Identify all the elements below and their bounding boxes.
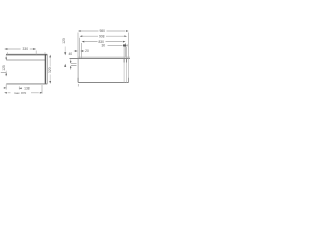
svg-text:max. 870: max. 870	[14, 91, 27, 95]
svg-text:40: 40	[68, 52, 72, 56]
svg-text:980: 980	[99, 29, 105, 33]
svg-text:30: 30	[101, 44, 105, 48]
svg-text:138: 138	[24, 87, 30, 91]
svg-text:908: 908	[99, 34, 105, 38]
svg-text:125: 125	[2, 65, 6, 71]
svg-text:120: 120	[62, 38, 66, 44]
svg-text:20: 20	[85, 49, 89, 53]
svg-text:330: 330	[23, 47, 29, 51]
svg-text:320: 320	[48, 67, 52, 73]
